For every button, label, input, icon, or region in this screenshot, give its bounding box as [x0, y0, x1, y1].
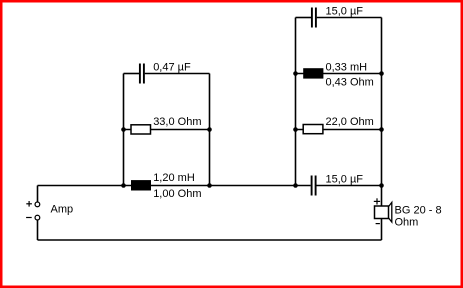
terminal: amp minus (open circle) [35, 215, 40, 220]
capacitor C1 0,47 µF plates [140, 64, 144, 84]
label - (amp) [26, 217, 32, 219]
wire: capacitor C2 branch left lead [296, 17, 312, 19]
wire: speaker top lead [381, 186, 383, 207]
junction node R2 right [379, 127, 384, 132]
wire: inductor L2 branch [296, 73, 382, 75]
label + (speaker) [374, 198, 380, 204]
capacitor C2 15,0 µF plates [312, 8, 316, 28]
svg-text:0,33 mH: 0,33 mH [326, 62, 368, 74]
junction node C3 left [293, 183, 298, 188]
svg-text:Amp: Amp [51, 204, 74, 216]
speaker LS1 driver box [375, 206, 389, 219]
svg-text:Ohm: Ohm [395, 216, 419, 228]
svg-text:0,43 Ohm: 0,43 Ohm [326, 76, 374, 88]
wire: resistor R1 branch [124, 129, 210, 131]
svg-text:15,0 µF: 15,0 µF [326, 174, 364, 186]
wire: bottom return rail [38, 239, 382, 241]
inductor L2 0,33 mH body [303, 68, 323, 78]
wire: speaker bottom lead [381, 219, 383, 241]
wire: amp minus terminal drop [37, 220, 39, 240]
junction node R2 left [293, 127, 298, 132]
svg-text:0,47 µF: 0,47 µF [153, 62, 191, 74]
junction node left group top rail left [121, 183, 126, 188]
wire: main top rail from amp to bottom capacitor left plate [38, 185, 311, 187]
junction node R1 right [207, 127, 212, 132]
svg-text:1,20 mH: 1,20 mH [153, 172, 195, 184]
svg-text:BG 20 - 8: BG 20 - 8 [395, 205, 442, 217]
junction node L2 left [293, 71, 298, 76]
capacitor C3 15,0 µF plates (series on rail) [312, 176, 316, 196]
wire: left group left vertical [123, 74, 125, 186]
wire: main top rail from bottom capacitor right plate to right node [315, 185, 381, 187]
inductor L1 1,20 mH body [131, 180, 151, 190]
wire: resistor R2 branch [296, 129, 382, 131]
resistor R2 22,0 Ohm body [303, 125, 323, 134]
label - (speaker) [376, 223, 380, 225]
svg-text:33,0 Ohm: 33,0 Ohm [153, 116, 201, 128]
wire: capacitor C1 branch right lead [145, 73, 210, 75]
svg-text:15,0 µF: 15,0 µF [326, 6, 364, 18]
svg-text:1,00 Ohm: 1,00 Ohm [153, 188, 201, 200]
wire: capacitor C1 branch left lead [124, 73, 140, 75]
wire: right group right vertical [381, 18, 383, 186]
wire: capacitor C2 branch right lead [317, 17, 382, 19]
junction node left group top rail right [207, 183, 212, 188]
wire: amp plus terminal riser [37, 186, 39, 203]
wire: right group left vertical [295, 18, 297, 186]
terminal: amp plus (open circle) [35, 202, 40, 207]
junction node C3 right / speaker tap [379, 183, 384, 188]
junction node R1 left [121, 127, 126, 132]
junction node L2 right [379, 71, 384, 76]
label + (amp) [26, 201, 32, 207]
resistor R1 33,0 Ohm body [131, 125, 151, 134]
svg-text:22,0 Ohm: 22,0 Ohm [326, 116, 374, 128]
wire: left group right vertical [209, 74, 211, 186]
speaker LS1 cone [389, 202, 392, 222]
